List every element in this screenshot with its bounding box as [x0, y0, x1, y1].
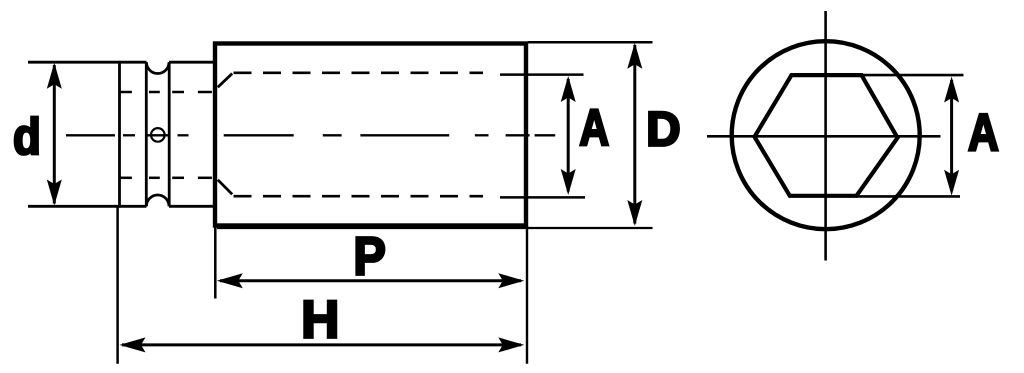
- groove band left vertical: [145, 62, 148, 206]
- extension line A top (end view): [862, 74, 964, 77]
- square drive bottom edge with d extension line: [28, 205, 147, 208]
- groove bottom notch arc: [146, 195, 169, 206]
- dimension A arrow: [561, 76, 576, 195]
- svg-text:A: A: [579, 99, 609, 156]
- dimension P arrow: [217, 273, 525, 288]
- square drive left edge: [118, 61, 121, 208]
- axis centerline (chain line): [66, 134, 555, 136]
- extension line D top: [528, 41, 653, 44]
- hex socket bore (end view): [755, 75, 898, 196]
- dimension A arrow (end view): [944, 77, 959, 196]
- dimension d arrow: [47, 63, 62, 206]
- dimension D arrow: [627, 43, 642, 226]
- dimension H arrow: [120, 337, 525, 352]
- chamfer line bottom: [218, 180, 232, 195]
- extension line A bottom: [500, 196, 585, 199]
- hex socket hidden line top (dashed): [234, 71, 484, 74]
- socket body outline: [215, 44, 526, 226]
- square drive hidden line bottom (dashed): [119, 177, 212, 180]
- chamfer line top: [218, 74, 232, 88]
- extension line D bottom: [217, 227, 653, 229]
- square drive top edge with d extension line: [28, 61, 147, 64]
- svg-text:P: P: [353, 225, 385, 286]
- end view horizontal centerline: [707, 135, 941, 138]
- svg-text:H: H: [301, 290, 339, 349]
- groove top notch arc: [146, 62, 169, 73]
- groove band right vertical: [168, 62, 171, 206]
- end view vertical centerline: [824, 11, 827, 261]
- pin hole circle: [151, 128, 165, 142]
- extension line H left: [116, 208, 119, 364]
- end view outline circle: [732, 41, 920, 229]
- svg-text:A: A: [968, 104, 999, 162]
- hex socket hidden line bottom (dashed): [234, 195, 484, 198]
- extension line A bottom (end view): [857, 195, 961, 198]
- extension line P left: [214, 226, 217, 299]
- svg-text:D: D: [646, 103, 680, 156]
- extension line A top: [500, 73, 584, 76]
- square drive hidden line top (dashed): [119, 91, 212, 94]
- svg-text:d: d: [13, 109, 41, 166]
- extension line right shared by P and H: [526, 226, 528, 364]
